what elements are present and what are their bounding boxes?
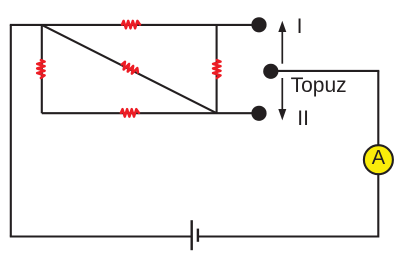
svg-text:I: I <box>297 15 303 38</box>
wire: rectangle right side <box>216 25 218 113</box>
svg-text:A: A <box>372 147 386 169</box>
node: terminal I dot <box>251 17 266 32</box>
resistor bottom <box>121 109 139 116</box>
wire: bottom left segment to battery <box>10 235 192 237</box>
wire: horizontal from knob dot to right vertical <box>278 70 379 72</box>
ammeter A <box>364 145 393 174</box>
wire: rectangle left side <box>41 25 43 113</box>
node: terminal II dot <box>251 106 266 121</box>
wire: outer left vertical <box>10 25 12 237</box>
arrow down toward II <box>281 78 283 110</box>
node: knob common dot <box>263 64 278 79</box>
resistor right <box>213 60 220 78</box>
resistor diagonal <box>120 61 139 76</box>
wire: right vertical lower (ammeter to bottom) <box>377 175 379 238</box>
wire: top horizontal to terminal I dot <box>10 24 259 26</box>
resistor top <box>122 21 140 28</box>
battery long plate <box>190 220 192 250</box>
resistor left <box>37 60 44 78</box>
wire: right vertical upper (corner to ammeter) <box>377 71 379 145</box>
wire: diagonal <box>42 25 217 113</box>
wire: rectangle bottom to terminal II dot <box>42 112 259 114</box>
wire: bottom right segment from battery <box>199 235 379 237</box>
battery short plate <box>197 229 199 242</box>
arrow up toward I <box>281 31 283 64</box>
svg-text:II: II <box>297 107 309 130</box>
svg-text:Topuz: Topuz <box>291 74 347 97</box>
